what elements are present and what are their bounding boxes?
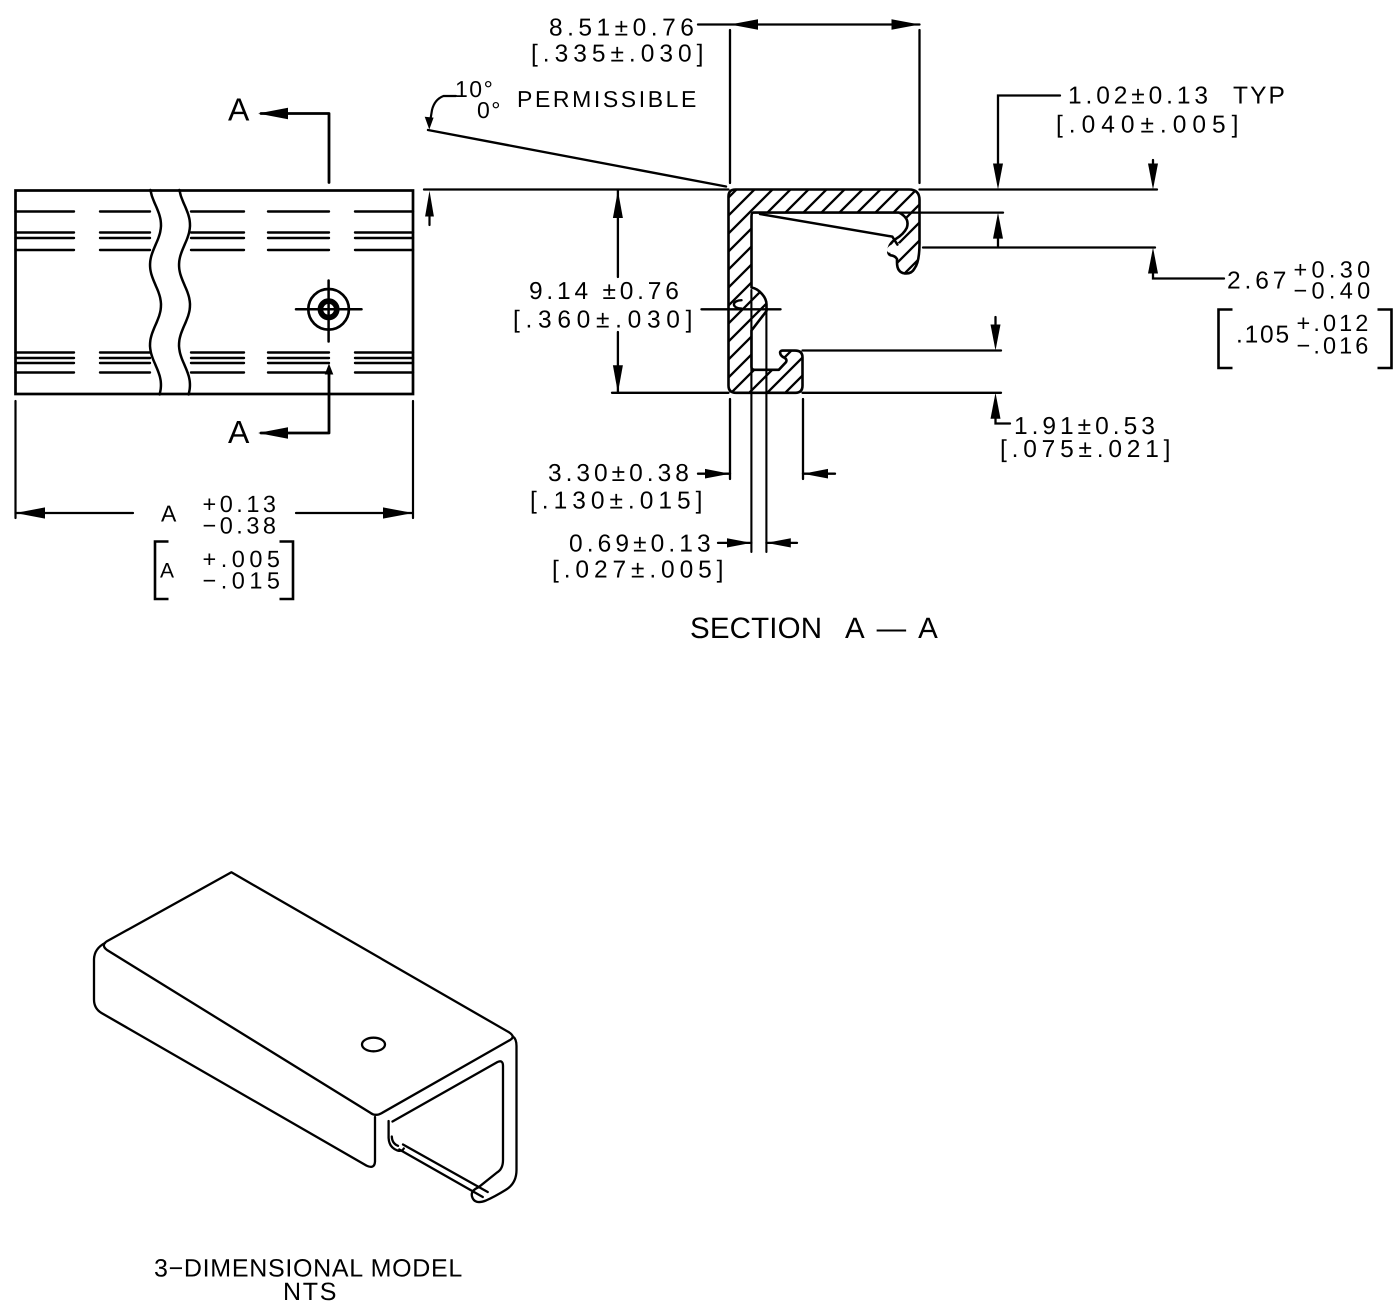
3D model channel opening inner edge bbox=[393, 1061, 504, 1187]
bracket right .105 bbox=[1378, 310, 1392, 369]
dim 0.69 dimension line right bbox=[766, 542, 797, 544]
svg-text:[.027±.005]: [.027±.005] bbox=[552, 557, 728, 584]
dim 3.30 dimension line right bbox=[803, 473, 835, 475]
svg-text:A: A bbox=[228, 92, 250, 128]
svg-text:TYP: TYP bbox=[1233, 83, 1287, 110]
dim 2.67 upper arrow shaft bbox=[1152, 160, 1154, 165]
hook curl white center bbox=[885, 241, 902, 255]
bend line pair y=358 bbox=[16, 357, 414, 359]
arrow 9.14 up bbox=[613, 191, 623, 219]
3D model left end and front wall bbox=[94, 943, 375, 1167]
permissible draft slant line bbox=[428, 130, 726, 187]
bracket left A bbox=[155, 542, 169, 600]
arrow 8.51 left bbox=[730, 19, 758, 30]
arrow 1.02 up bbox=[993, 213, 1003, 239]
svg-text:SECTION: SECTION bbox=[690, 612, 822, 645]
svg-text:[.040±.005]: [.040±.005] bbox=[1056, 112, 1244, 139]
svg-text:[.360±.030]: [.360±.030] bbox=[513, 307, 698, 334]
svg-text:2.67: 2.67 bbox=[1227, 268, 1290, 295]
arrow 3.30 right (pointing left) bbox=[803, 469, 828, 479]
dim 0.69 dimension line left bbox=[718, 542, 751, 544]
svg-text:1.02±0.13: 1.02±0.13 bbox=[1068, 83, 1212, 110]
section centerline through ridge bbox=[702, 308, 781, 310]
arrow 8.51 right bbox=[892, 19, 920, 30]
width dim A arrow right bbox=[383, 507, 413, 518]
bend line top (dashed) y=211.5 bbox=[16, 210, 414, 212]
dim 9.14 dimension line bbox=[617, 191, 619, 393]
dim 8.51 dimension line bbox=[698, 23, 920, 25]
dim 8.51 extension lines bbox=[730, 30, 920, 183]
inner top surface extension line bbox=[899, 211, 1003, 213]
wall ridge notch arc bbox=[734, 300, 742, 308]
arrow permissible leader bbox=[425, 117, 434, 130]
svg-text:A: A bbox=[160, 560, 174, 583]
svg-text:0.69±0.13: 0.69±0.13 bbox=[569, 531, 715, 558]
svg-text:−0.40: −0.40 bbox=[1294, 278, 1375, 304]
svg-text:8.51±0.76: 8.51±0.76 bbox=[549, 15, 698, 42]
svg-text:−0.38: −0.38 bbox=[203, 513, 280, 539]
svg-text:9.14 ±0.76: 9.14 ±0.76 bbox=[529, 278, 683, 305]
plan view rail outline bbox=[16, 191, 414, 395]
3D model slot edge inner bbox=[399, 1150, 483, 1198]
svg-text:−.016: −.016 bbox=[1297, 333, 1372, 359]
bottom surface projection line bbox=[612, 392, 1001, 394]
arrow 2.67 up bbox=[1148, 248, 1158, 274]
3D model right silhouette and bottom lip edge bbox=[472, 1037, 517, 1203]
dim 0.69 extension lines bbox=[751, 290, 766, 552]
lip grip extension line (2.67) bbox=[923, 246, 1155, 248]
bend line pair y=238 bbox=[16, 237, 414, 239]
break wave left bbox=[150, 190, 161, 394]
width dim A extension line right bbox=[412, 401, 414, 518]
svg-text:[.335±.030]: [.335±.030] bbox=[531, 41, 708, 68]
arrow 1.02 down bbox=[993, 164, 1003, 190]
svg-text:A—A: A—A bbox=[845, 612, 950, 645]
plan thickness arrow (up) bbox=[425, 191, 434, 217]
top surface projection line bbox=[424, 188, 1157, 190]
svg-text:[.075±.021]: [.075±.021] bbox=[1000, 436, 1175, 463]
svg-text:NTS: NTS bbox=[283, 1278, 338, 1306]
section arrow bottom vertical (up-pointing) bbox=[325, 364, 334, 375]
bend line y=250 (dashed) bbox=[16, 249, 414, 251]
flange underside draft line (tab top) bbox=[760, 214, 897, 245]
section arrow bottom (left-pointing) bbox=[258, 427, 288, 438]
svg-text:A: A bbox=[161, 501, 177, 527]
section cut line A bottom bbox=[261, 372, 329, 433]
break wave right bbox=[179, 190, 190, 394]
bend line bottom y=352.5 (dashed) bbox=[16, 351, 414, 353]
svg-text:PERMISSIBLE: PERMISSIBLE bbox=[517, 86, 699, 112]
permissible angle leader bbox=[430, 96, 456, 121]
hole centerline horizontal bbox=[296, 308, 362, 311]
svg-text:3.30±0.38: 3.30±0.38 bbox=[548, 460, 693, 487]
dim 1.91 leader bbox=[996, 417, 1011, 424]
3D model left lip curl inner line bbox=[392, 1137, 398, 1146]
bend line pair y=363 bbox=[16, 362, 414, 364]
plan thickness arrow shaft bbox=[428, 215, 430, 225]
wall ridge notch (white) bbox=[734, 300, 742, 308]
foot top extension line (1.91) bbox=[803, 349, 1002, 351]
3D model top face bbox=[104, 872, 513, 1115]
3D model left lip curl bbox=[389, 1121, 404, 1151]
width dim A extension line left bbox=[14, 401, 16, 518]
dim 3.30 extension lines bbox=[730, 399, 803, 479]
arrow 9.14 down bbox=[613, 365, 623, 393]
dim 1.02 leader bbox=[998, 96, 1060, 166]
arrow 2.67 down bbox=[1148, 164, 1158, 190]
arrow 0.69 left (pointing right) bbox=[727, 538, 751, 547]
mounting hole outer circle bbox=[308, 289, 349, 330]
arrow 1.91 up bbox=[991, 393, 1001, 419]
dim 3.30 dimension line left bbox=[698, 473, 730, 475]
arrow 0.69 right (pointing left) bbox=[766, 538, 790, 547]
section cut line A top bbox=[261, 114, 329, 183]
section arrow top (left-pointing) bbox=[258, 108, 288, 119]
svg-text:A: A bbox=[228, 414, 250, 450]
svg-text:0°: 0° bbox=[477, 97, 502, 123]
bend line pair y=232.5 bbox=[16, 231, 414, 233]
width dim A dimension line bbox=[16, 512, 414, 514]
bracket left .105 bbox=[1219, 310, 1233, 369]
3D model top hole bbox=[362, 1038, 385, 1052]
dim 1.02 lower arrow shaft bbox=[997, 236, 999, 246]
svg-text:.105: .105 bbox=[1236, 322, 1291, 349]
bracket right A bbox=[280, 542, 294, 600]
mounting hole inner ring bbox=[320, 301, 336, 317]
svg-text:−.015: −.015 bbox=[203, 568, 285, 594]
svg-text:[.130±.015]: [.130±.015] bbox=[530, 488, 707, 515]
3D model slot edge outer bbox=[403, 1145, 488, 1193]
hole centerline vertical bbox=[327, 281, 330, 342]
section A-A hatched profile bbox=[729, 190, 920, 393]
dim 1.91 upper arrow shaft bbox=[994, 317, 996, 325]
bend line y=372.5 (dashed) bbox=[16, 371, 414, 373]
arrow 3.30 left (pointing right) bbox=[705, 469, 730, 479]
dim 2.67 leader bbox=[1153, 272, 1224, 279]
arrow 1.91 down bbox=[991, 325, 1001, 351]
width dim A arrow left bbox=[16, 507, 46, 518]
